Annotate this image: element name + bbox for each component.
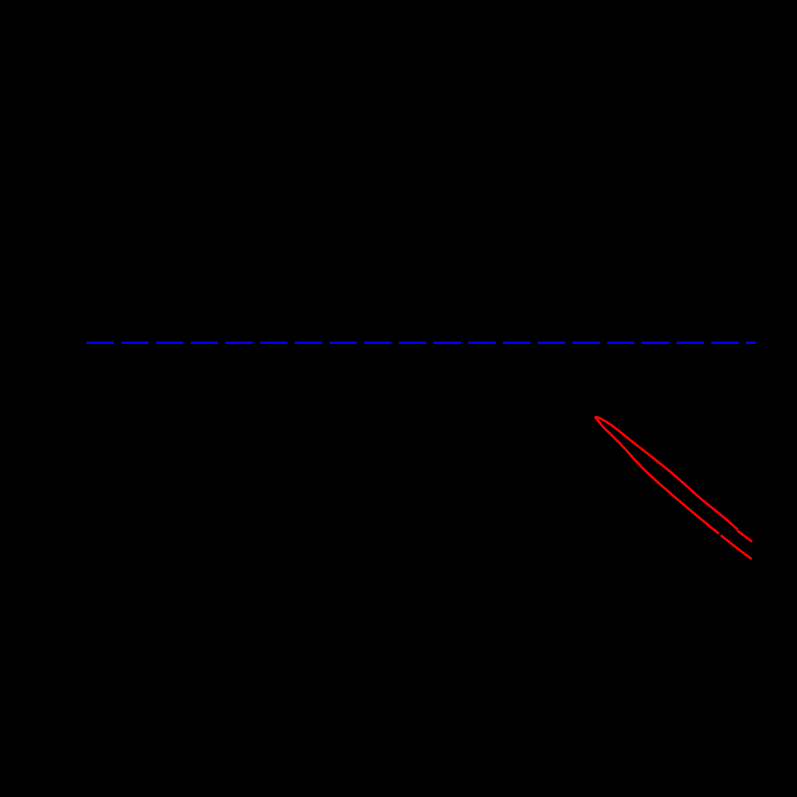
red arc end segment (lower strand tail after gap) — [721, 535, 752, 559]
blue dashed horizontal reference line — [87, 342, 756, 344]
red ellipse arc (main hairpin loop) — [596, 417, 738, 534]
red arc end segment (upper strand tail after jog) — [737, 530, 752, 541]
